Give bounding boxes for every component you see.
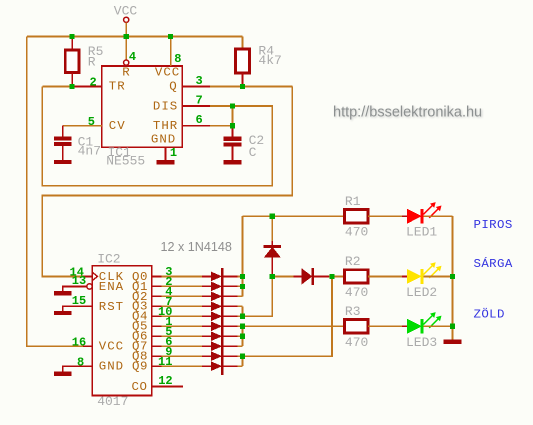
pin number 7: [196, 94, 203, 108]
IC2 pin 4 Q2 stub: [152, 295, 162, 297]
label diode array 12 x 1N4148: [161, 240, 232, 254]
wire LED3 to gnd rail: [424, 325, 453, 327]
label R2 name: [345, 254, 361, 269]
IC2 pin name Q0: [132, 270, 148, 284]
diode D3 (1N4148): [202, 292, 242, 302]
pin number 2: [90, 76, 97, 90]
IC2 pin 7 Q3 stub: [152, 305, 162, 307]
IC2 pin 6 Q7 stub: [152, 345, 162, 347]
pin number 3: [196, 74, 203, 88]
IC1 pin 8 VCC wire: [170, 36, 172, 66]
pin number 8: [77, 355, 84, 369]
svg-text:LED2: LED2: [406, 285, 437, 300]
svg-text:Q: Q: [169, 80, 177, 94]
svg-text:SÁRGA: SÁRGA: [474, 256, 513, 271]
pin number 7: [165, 295, 172, 309]
pin number 15: [72, 294, 86, 308]
wire Q6 to diode D7: [162, 335, 203, 337]
svg-text:6: 6: [196, 113, 203, 127]
svg-text:3: 3: [196, 74, 203, 88]
wire PIROS bus vertical: [242, 216, 244, 296]
IC2 pin 15 RST stub+gnd: [63, 306, 93, 311]
op-amp U1 IC1 NE555 body: [102, 66, 182, 147]
svg-text:TR: TR: [109, 80, 126, 94]
LED LED3 (green): [407, 312, 441, 334]
svg-text:1: 1: [170, 146, 177, 160]
IC1 pin name Q: [169, 80, 177, 94]
node junction Q5 bus: [240, 324, 245, 329]
node label PIROS: [474, 218, 513, 232]
wire LED2 to gnd rail: [424, 275, 453, 277]
svg-text:THR: THR: [153, 119, 178, 133]
IC1 pin 6 THR stub: [182, 125, 210, 127]
pin number 11: [158, 355, 172, 369]
IC2 pin 16 VCC stub: [83, 345, 92, 347]
node junction gnd rail/LED2: [450, 274, 455, 279]
wire THR: [210, 125, 232, 127]
IC1 pin name THR: [153, 119, 178, 133]
diode D2 (1N4148): [202, 282, 242, 292]
capacitor C1: [54, 126, 72, 160]
svg-text:LED3: LED3: [406, 335, 437, 350]
pin number 10: [158, 305, 172, 319]
label IC1 value NE555: [106, 154, 145, 169]
diode D6 (1N4148): [202, 321, 242, 331]
pin number 16: [72, 335, 86, 349]
svg-text:VCC: VCC: [99, 340, 124, 354]
pin number 12: [158, 374, 172, 388]
pin number 2: [165, 275, 172, 289]
IC2 pin name Q7: [132, 340, 148, 354]
IC2 pin name Q8: [132, 350, 148, 364]
svg-text:RST: RST: [99, 300, 124, 314]
label R3 name: [345, 304, 361, 319]
svg-text:CO: CO: [132, 380, 148, 394]
wire Q8-Q9 vertical: [242, 356, 244, 366]
svg-text:15: 15: [72, 294, 86, 308]
diode D5 (1N4148): [202, 311, 242, 321]
IC2 pin 12 CO stub: [152, 385, 183, 387]
wire SARGA link: [243, 276, 273, 316]
svg-text:4: 4: [129, 50, 136, 64]
svg-text:C: C: [249, 145, 257, 160]
power symbol VCC (supply): [114, 4, 138, 23]
node label SARGA: [474, 256, 513, 271]
wire ZOLD bus vertical: [242, 326, 244, 346]
pin number 5: [165, 325, 172, 339]
svg-text:470: 470: [345, 225, 368, 240]
svg-text:GND: GND: [99, 360, 124, 374]
IC2 pin 14 CLK stub+wedge: [83, 272, 98, 280]
node junction VCC symbol: [124, 34, 129, 39]
wire PIROS row: [243, 215, 345, 217]
diode D9 (1N4148): [202, 351, 242, 361]
diode D7 (1N4148): [202, 331, 242, 341]
diode D13 (to PIROS): [264, 216, 281, 276]
resistor R5: [65, 36, 79, 86]
node junction PIROS/D-anode: [270, 214, 275, 219]
svg-text:4k7: 4k7: [258, 53, 281, 68]
pin number 1: [170, 146, 177, 160]
wire to R2: [332, 275, 345, 277]
svg-text:4n7: 4n7: [78, 144, 101, 159]
wire Q7 to diode D8: [162, 345, 203, 347]
svg-text:12: 12: [158, 374, 172, 388]
svg-text:PIROS: PIROS: [474, 218, 513, 232]
resistor R1: [345, 210, 368, 223]
label LED3 name: [406, 335, 437, 350]
IC2 pin name Q1: [132, 280, 148, 294]
node junction Q1 bus: [240, 284, 245, 289]
wire TR left segment: [42, 85, 72, 87]
ground symbol at IC1 pin1: [157, 160, 175, 164]
svg-text:R2: R2: [345, 254, 361, 269]
label R3 value 470: [345, 335, 368, 350]
wire Q8Q9 link to R2: [243, 276, 332, 356]
wire LED ground rail: [452, 216, 454, 339]
label IC1 name: [108, 145, 132, 160]
IC1 pin 4 R bubble+wire: [124, 36, 129, 65]
svg-text:R1: R1: [345, 194, 361, 209]
label R1 name: [345, 194, 361, 209]
label R5 name: [88, 44, 104, 59]
LED LED1 (red): [407, 202, 441, 224]
svg-text:7: 7: [196, 94, 203, 108]
diode D10 (1N4148): [202, 361, 242, 371]
pin number 8: [174, 52, 181, 66]
IC2 pin 2 Q1 stub: [152, 285, 162, 287]
wire DIS: [210, 105, 232, 107]
label C2 name: [249, 133, 265, 148]
IC1 pin 3 Q stub: [182, 85, 210, 87]
label C1 name: [78, 134, 94, 149]
IC1 pin name R: [122, 65, 130, 79]
wire Q9 to diode D10: [162, 365, 203, 367]
node junction DIS/C2: [230, 103, 235, 108]
IC2 pin name GND: [99, 360, 124, 374]
ground symbol LED rail: [444, 340, 462, 344]
IC2 pin 5 Q6 stub: [152, 335, 162, 337]
label R5 value: [88, 54, 96, 69]
node junction R2 node: [329, 274, 334, 279]
svg-text:470: 470: [345, 335, 368, 350]
wire VCC bus horizontal: [27, 35, 243, 37]
label LED1 name: [406, 225, 437, 240]
node junction SARGA/D13: [270, 274, 275, 279]
ground symbol at IC2 pin13: [54, 291, 72, 295]
node junction VCC/R5: [70, 34, 75, 39]
svg-text:5: 5: [88, 115, 95, 129]
label IC2 name: [97, 252, 120, 267]
IC1 pin name TR: [109, 80, 126, 94]
pin number 3: [165, 265, 172, 279]
IC2 pin name Q6: [132, 330, 148, 344]
svg-text:IC2: IC2: [97, 252, 120, 267]
node junction Q4 bus: [240, 314, 245, 319]
IC2 pin 13 ENA bubble+gnd: [63, 284, 93, 291]
svg-text:LED1: LED1: [406, 225, 437, 240]
wire LED1 to gnd rail: [424, 215, 453, 217]
label R4 value: [258, 53, 281, 68]
IC1 pin 1 GND stub: [164, 147, 166, 160]
wire Q2 to diode D3: [162, 295, 203, 297]
IC2 pin 3 Q0 stub: [152, 275, 162, 277]
svg-text:12 x 1N4148: 12 x 1N4148: [161, 240, 232, 254]
resistor R4: [236, 36, 250, 86]
node junction THR/C2: [230, 123, 235, 128]
label C2 value: [249, 145, 257, 160]
pin number 6: [196, 113, 203, 127]
svg-text:CV: CV: [109, 119, 126, 133]
IC1 pin name GND: [151, 132, 176, 146]
watermark text: [333, 104, 482, 120]
pin number 9: [165, 345, 172, 359]
diode array cathode bar column: [221, 268, 224, 375]
IC1 pin 5 CV wire: [63, 125, 102, 127]
pin number 4: [165, 285, 172, 299]
svg-text:ENA: ENA: [99, 280, 124, 294]
svg-text:R: R: [88, 54, 96, 69]
resistor R3: [345, 320, 368, 333]
node junction Q8 bus: [240, 354, 245, 359]
IC1 pin name VCC: [155, 65, 180, 79]
IC2 pin name Q4: [132, 310, 148, 324]
IC2 pin 9 Q8 stub: [152, 355, 162, 357]
wire Q0 to diode D1: [162, 275, 203, 277]
svg-text:2: 2: [90, 76, 97, 90]
IC2 pin 11 Q9 stub: [152, 365, 162, 367]
wire Q5 to diode D6: [162, 325, 203, 327]
IC U2 IC2 4017 body: [92, 266, 152, 396]
label R4 name: [258, 44, 274, 59]
capacitor C2: [224, 126, 242, 161]
label R2 value 470: [345, 285, 368, 300]
svg-text:NE555: NE555: [106, 154, 145, 169]
svg-text:470: 470: [345, 285, 368, 300]
pin number 5: [88, 115, 95, 129]
node junction VCC/pin8: [168, 34, 173, 39]
pin number 13: [72, 274, 86, 288]
IC1 pin 7 DIS stub: [182, 105, 210, 107]
svg-text:Q9: Q9: [132, 360, 148, 374]
svg-text:DIS: DIS: [153, 99, 178, 113]
ground symbol at IC2 pin15: [54, 311, 72, 315]
pin number 4: [129, 50, 136, 64]
svg-text:4017: 4017: [97, 394, 128, 409]
wire Q1 to diode D2: [162, 285, 203, 287]
svg-text:R3: R3: [345, 304, 361, 319]
LED LED2 (yellow): [407, 262, 441, 284]
IC2 pin name RST: [99, 300, 124, 314]
IC2 pin name ENA: [99, 280, 124, 294]
wire VCC symbol to bus: [125, 22, 127, 36]
wire DIS-THR vertical: [231, 106, 233, 126]
node junction Q/R4: [240, 84, 245, 89]
wire R3 to LED3: [368, 325, 408, 327]
IC1 pin name DIS: [153, 99, 178, 113]
IC2 pin name Q5: [132, 320, 148, 334]
pin number 1: [165, 315, 172, 329]
svg-text:VCC: VCC: [114, 4, 138, 19]
svg-text:ZÖLD: ZÖLD: [474, 307, 505, 321]
node junction R5/TR: [70, 84, 75, 89]
diode D14 (to R2): [272, 268, 332, 285]
IC2 pin name Q2: [132, 290, 148, 304]
svg-text:8: 8: [77, 355, 84, 369]
label IC2 value 4017: [97, 394, 128, 409]
resistor R2: [345, 270, 368, 283]
wire Q to R4 junction: [210, 85, 292, 87]
diode D4 (1N4148): [202, 301, 242, 311]
node junction Q0 bus: [240, 274, 245, 279]
svg-text:8: 8: [174, 52, 181, 66]
svg-text:VCC: VCC: [155, 65, 180, 79]
IC1 pin 2 TR stub: [72, 85, 102, 87]
ground symbol at IC2 pin8: [54, 372, 72, 376]
svg-text:16: 16: [72, 335, 86, 349]
IC2 pin 1 Q5 stub: [152, 325, 162, 327]
wire SARGA tap vertical: [242, 306, 244, 316]
wire Q3 to diode D4: [162, 305, 203, 307]
wire Q4 to diode D5: [162, 315, 203, 317]
IC2 pin 10 Q4 stub: [152, 315, 162, 317]
node label ZOLD: [474, 307, 505, 321]
IC2 pin name Q9: [132, 360, 148, 374]
svg-text:13: 13: [72, 274, 86, 288]
diode D8 (1N4148): [202, 341, 242, 351]
wire R2 to LED2: [368, 275, 408, 277]
svg-text:GND: GND: [151, 132, 176, 146]
pin number 6: [165, 335, 172, 349]
node junction Q6 bus: [240, 334, 245, 339]
pin number 14: [70, 266, 84, 280]
wire R1 to LED1: [368, 215, 408, 217]
label R1 value 470: [345, 225, 368, 240]
IC1 pin name CV: [109, 119, 126, 133]
IC2 pin name CO: [132, 380, 148, 394]
label LED2 name: [406, 285, 437, 300]
IC2 pin name CLK: [99, 270, 124, 284]
IC2 pin 8 GND stub+gnd: [63, 366, 93, 371]
wire TR-DIS loop: [42, 86, 272, 185]
IC2 pin name Q3: [132, 300, 148, 314]
ground symbol at C2: [224, 160, 242, 164]
IC2 pin name VCC: [99, 340, 124, 354]
wire ZOLD row: [243, 325, 345, 327]
label C1 value: [78, 144, 101, 159]
wire Q8 to diode D9: [162, 355, 203, 357]
diode D1 (1N4148): [202, 272, 242, 282]
wire VCC rail left down to IC2 VCC: [27, 36, 83, 346]
wire Q down-left to IC2 CLK: [42, 86, 292, 276]
svg-text:http://bsselektronika.hu: http://bsselektronika.hu: [333, 104, 482, 120]
node junction gnd rail/LED3: [450, 324, 455, 329]
svg-text:R: R: [122, 65, 130, 79]
ground symbol at C1: [54, 160, 72, 164]
